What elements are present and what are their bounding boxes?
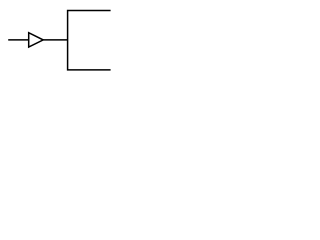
wire output: [43, 39, 67, 41]
buffer gate: [29, 33, 44, 47]
wire input: [8, 39, 29, 41]
component box edge: [68, 11, 111, 70]
